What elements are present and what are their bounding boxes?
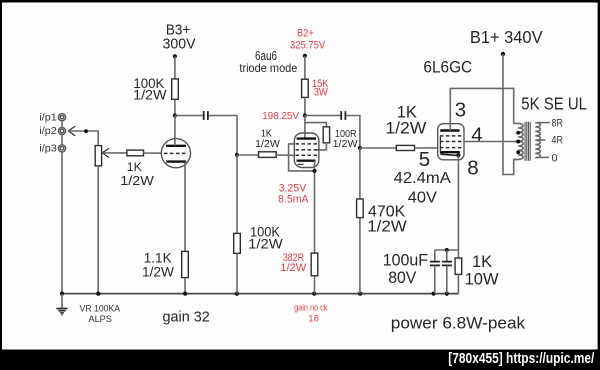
tube 6L6GC xyxy=(438,124,464,160)
capacitor 100uF 80V #2 xyxy=(442,250,452,294)
wire 470K to ground bus xyxy=(359,218,361,294)
junction cathode 6au6 xyxy=(312,169,316,173)
svg-text:0: 0 xyxy=(552,153,558,165)
svg-text:i/p3: i/p3 xyxy=(39,144,57,155)
node grid 6L6 junction xyxy=(358,146,362,150)
svg-text:8R: 8R xyxy=(552,118,563,130)
svg-text:3: 3 xyxy=(455,99,466,122)
svg-text:5: 5 xyxy=(419,148,430,171)
resistor 1K 10W cathode 6L6 xyxy=(455,250,499,294)
label 3.25V 8.5mA xyxy=(278,182,309,205)
jack i/p3 xyxy=(39,144,65,155)
resistor 1K 1/2W grid stopper 6au6 xyxy=(255,128,280,158)
wire 1K to g1 xyxy=(276,154,294,156)
pentode 6au6 xyxy=(294,133,319,168)
wire screen branch xyxy=(305,123,327,127)
resistor 100K 1/2W grid leak 6au6 xyxy=(234,225,283,254)
wire anode V1 up xyxy=(174,116,176,146)
svg-text:1/2W: 1/2W xyxy=(280,262,307,274)
wire anode 6L6 to OPT xyxy=(450,88,513,130)
wire 100K to anode node xyxy=(174,99,176,115)
node grid 6au6 junction xyxy=(235,153,239,157)
svg-text:198.25V: 198.25V xyxy=(262,111,299,122)
svg-text:100uF: 100uF xyxy=(383,252,428,270)
wire wiper to 1K xyxy=(102,152,127,154)
svg-text:8: 8 xyxy=(467,157,478,180)
label 6au6 triode mode xyxy=(239,48,297,75)
resistor 1K 1/2W grid stopper V1 xyxy=(120,150,154,188)
wire B1+ to OPT primary bottom xyxy=(503,54,518,175)
svg-text:3W: 3W xyxy=(314,86,329,98)
wire grid node to g1 6au6 xyxy=(237,154,259,156)
resistor 100K 1/2W plate load V1 xyxy=(133,76,178,103)
wire 1K to grid V1 xyxy=(144,152,162,154)
resistor 15K 3W xyxy=(302,78,329,99)
arrow input select at i/p2 xyxy=(68,126,75,136)
wire i/p2 to VR top xyxy=(68,131,98,146)
svg-text:1/2W: 1/2W xyxy=(248,237,283,252)
resistor 100R 1/2W screen xyxy=(323,127,357,150)
svg-text:18: 18 xyxy=(308,313,319,324)
node B1+ 340V xyxy=(470,27,543,56)
svg-text:1K: 1K xyxy=(472,253,492,271)
capacitor coupling C1 xyxy=(204,111,208,120)
node anode V1 junction xyxy=(173,113,177,117)
resistor 470K 1/2W grid leak 6L6 xyxy=(357,199,408,235)
junction at cap2 xyxy=(445,248,449,252)
label 42.4mA 40V xyxy=(394,170,452,206)
wire C2 to junction xyxy=(346,116,360,149)
tap 0 xyxy=(538,153,558,165)
svg-text:325.75V: 325.75V xyxy=(290,39,326,51)
node B3+ 300V xyxy=(163,21,196,58)
ground symbol xyxy=(56,294,67,315)
svg-text:gain 32: gain 32 xyxy=(163,308,210,325)
svg-text:1/2W: 1/2W xyxy=(385,120,426,138)
ground bus xyxy=(62,293,458,295)
wire B3+ to 100K xyxy=(174,56,176,79)
wire cathode V1 down xyxy=(184,162,186,252)
svg-text:1/2W: 1/2W xyxy=(133,88,167,104)
capacitor coupling C2 xyxy=(341,111,345,120)
wire 382R to ground bus xyxy=(314,276,316,294)
jack i/p2 xyxy=(39,126,65,137)
wire grid leak 100K down xyxy=(236,155,238,233)
resistor 1.1K 1/2W cathode V1 xyxy=(142,250,188,280)
svg-text:triode mode: triode mode xyxy=(239,61,297,75)
svg-text:80V: 80V xyxy=(388,269,416,287)
wire cathode branch to caps xyxy=(435,249,459,251)
OPT core xyxy=(525,122,530,161)
wire g3 strap to cathode xyxy=(289,144,315,171)
svg-text:1/2W: 1/2W xyxy=(142,264,175,280)
svg-text:3.25V: 3.25V xyxy=(279,182,307,194)
svg-text:8.5mA: 8.5mA xyxy=(278,194,309,206)
svg-text:i/p1: i/p1 xyxy=(39,112,57,123)
svg-text:300V: 300V xyxy=(163,36,196,53)
svg-text:VR 100KA: VR 100KA xyxy=(80,303,121,314)
svg-text:42.4mA: 42.4mA xyxy=(394,170,452,187)
wire VR bottom to ground bus xyxy=(97,166,99,294)
svg-text:6L6GC: 6L6GC xyxy=(423,58,472,77)
label 100uF 80V xyxy=(383,252,428,288)
wire junction to 470K xyxy=(359,148,361,199)
potentiometer VR 100KA xyxy=(95,146,101,166)
wire cathode 6au6 down xyxy=(314,161,316,253)
wire 100K to ground bus xyxy=(236,253,238,293)
jack i/p1 xyxy=(39,112,65,123)
resistor 1K 1/2W grid stopper 6L6 xyxy=(385,103,426,150)
tap 4R xyxy=(538,134,563,146)
wire junction to 1K grid stopper xyxy=(360,147,396,149)
svg-text:4: 4 xyxy=(471,123,482,146)
svg-text:40V: 40V xyxy=(408,189,438,206)
triode V1 xyxy=(161,139,190,168)
node B2+ 325.75V xyxy=(290,28,326,58)
tap 8R xyxy=(538,118,563,130)
svg-text:1/2W: 1/2W xyxy=(367,218,407,235)
node 198.25V xyxy=(262,111,307,122)
wire jack bus to ground xyxy=(61,121,63,294)
wire screen pin4 to UL tap xyxy=(464,141,518,143)
wire 100R to g2 xyxy=(316,143,326,150)
svg-text:[780x455] https://upic.me/: [780x455] https://upic.me/ xyxy=(448,350,595,367)
wire 15K to anode node 6au6 xyxy=(304,97,306,115)
svg-text:i/p2: i/p2 xyxy=(39,126,57,137)
wire C1 to grid leak node xyxy=(209,116,237,156)
wire cathode 6L6 down xyxy=(457,155,459,250)
svg-text:1/2W: 1/2W xyxy=(255,138,280,150)
capacitor 100uF 80V #1 xyxy=(430,250,440,294)
OPT primary winding xyxy=(514,123,524,159)
wire B2+ to 15K xyxy=(304,56,306,79)
junction dots on ground bus xyxy=(60,292,449,296)
wiper arrow of VR xyxy=(102,148,109,157)
svg-text:4R: 4R xyxy=(552,134,563,146)
svg-text:10W: 10W xyxy=(465,271,499,289)
OPT secondary winding xyxy=(535,123,540,158)
svg-text:power 6.8W-peak: power 6.8W-peak xyxy=(391,315,526,333)
svg-text:B2+: B2+ xyxy=(297,28,314,40)
wire 1.1K to ground bus xyxy=(184,278,186,294)
junction on input wire xyxy=(84,129,88,133)
svg-text:B1+ 340V: B1+ 340V xyxy=(470,27,543,47)
svg-text:5K SE UL: 5K SE UL xyxy=(521,94,587,114)
wire anode 6au6 node to C2 xyxy=(305,115,340,117)
wire 1K to pin 5 xyxy=(415,147,438,149)
resistor 382R 1/2W cathode 6au6 xyxy=(280,252,318,276)
svg-text:1/2W: 1/2W xyxy=(120,173,154,188)
wire anode node to C1 xyxy=(175,115,203,117)
svg-text:gain no ck: gain no ck xyxy=(294,303,328,314)
wire anode lead 6au6 xyxy=(304,116,306,139)
svg-text:ALPS: ALPS xyxy=(88,314,112,325)
svg-text:1/2W: 1/2W xyxy=(333,138,358,150)
svg-text:1K: 1K xyxy=(397,103,417,121)
label VR 100KA ALPS xyxy=(80,303,121,325)
label gain no ck 18 xyxy=(294,303,328,325)
